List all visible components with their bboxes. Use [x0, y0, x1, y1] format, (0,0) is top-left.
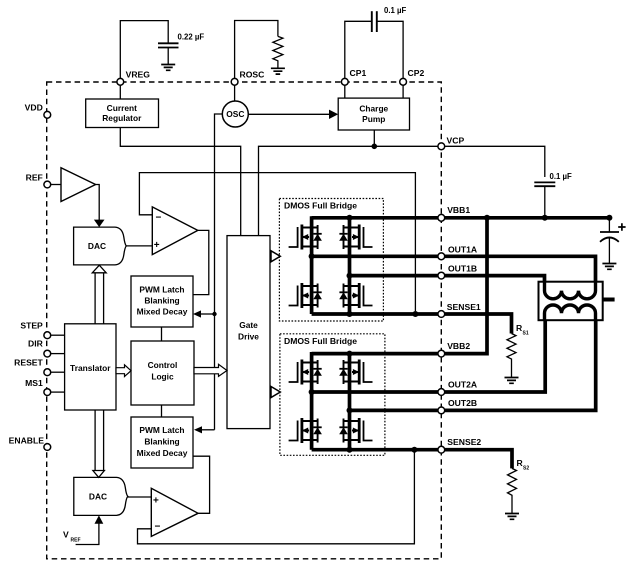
svg-text:OUT1A: OUT1A [448, 244, 477, 254]
svg-text:Blanking: Blanking [144, 437, 179, 447]
svg-text:OSC: OSC [226, 109, 244, 119]
svg-text:Blanking: Blanking [144, 296, 179, 306]
wire MS1 to translator [51, 391, 65, 393]
wire PWM2 to control logic [161, 405, 163, 417]
control logic block [131, 341, 194, 405]
comparator 1 [152, 207, 198, 255]
motor winding 2 [545, 305, 596, 320]
DMOS full bridge 2 dotted box [280, 334, 385, 456]
wire comparator 1 minus feedback from SENSE1 [139, 173, 415, 311]
DAC 1 [74, 227, 127, 265]
junction OSC branch [212, 312, 216, 316]
bus arrow translator to DAC1 [95, 273, 104, 324]
junction VCP cap on VBB1 [542, 215, 548, 221]
svg-text:VREG: VREG [126, 70, 151, 80]
svg-text:0.1 µF: 0.1 µF [384, 6, 406, 15]
transistor bridge1 bottom-right [339, 283, 372, 308]
open arrow translator to control logic [116, 365, 131, 377]
pin CP2 [400, 78, 407, 85]
junction node OUT2A / left spine [309, 389, 315, 395]
svg-text:SENSE1: SENSE1 [447, 302, 481, 312]
junction bridge2 sense rail / right spine [347, 447, 353, 453]
wire CP1 to charge pump [344, 86, 346, 99]
pin REF [44, 181, 51, 188]
svg-text:ROSC: ROSC [240, 70, 265, 80]
current regulator block [86, 99, 159, 128]
svg-text:OUT2A: OUT2A [448, 380, 477, 390]
IC boundary dashed box [47, 82, 442, 559]
svg-text:STEP: STEP [20, 320, 43, 330]
pin RESET [44, 369, 51, 376]
svg-text:Logic: Logic [151, 372, 174, 382]
open arrow control logic to gate drive [194, 364, 227, 376]
junction SENSE1 feedback tap [412, 311, 418, 317]
pin VDD [44, 111, 51, 118]
OUT2A row [312, 390, 438, 394]
pin VBB2 [438, 350, 445, 357]
ground of electrolytic cap [602, 264, 616, 270]
junction node OUT1B / right spine [347, 273, 353, 279]
svg-text:0.22 µF: 0.22 µF [178, 33, 205, 42]
bridge 2 bottom rail SENSE2 [312, 448, 438, 452]
ground of RS1 [505, 378, 519, 384]
VBB1 external line [445, 216, 610, 220]
svg-text:RESET: RESET [14, 358, 43, 368]
pin SENSE1 [438, 311, 445, 318]
svg-text:PWM Latch: PWM Latch [139, 285, 184, 295]
wire DIR to translator [51, 353, 65, 355]
bridge 1 bottom rail SENSE1 [312, 312, 438, 316]
svg-text:+: + [154, 240, 160, 251]
junction SENSE2 feedback tap [411, 447, 417, 453]
wire DAC1 to comparator 1 plus input [126, 245, 153, 247]
ground of 0.22uF cap [161, 65, 175, 71]
junction electrolytic cap [606, 215, 612, 221]
wire STEP to translator [51, 334, 65, 336]
arrow into PWM latch 2 [200, 429, 215, 431]
pin OUT1B [438, 272, 445, 279]
motor winding 1 [545, 282, 596, 299]
bridge 2 right spine [348, 354, 352, 450]
open chevron gate drive to bridge 1 [271, 251, 280, 262]
SENSE1 external line [445, 314, 512, 334]
OUT2B row [350, 409, 439, 413]
svg-text:MS1: MS1 [25, 378, 43, 388]
svg-text:CP2: CP2 [408, 68, 425, 78]
wire charge pump output to VCP and gate drive [259, 130, 439, 236]
pin OUT1A [438, 253, 445, 260]
svg-text:0.1 µF: 0.1 µF [550, 172, 572, 181]
wire comparator 2 minus feedback from SENSE2 [138, 452, 415, 544]
svg-text:CP1: CP1 [350, 68, 367, 78]
svg-text:VBB2: VBB2 [447, 341, 470, 351]
svg-text:VBB1: VBB1 [447, 205, 470, 215]
svg-text:DMOS Full Bridge: DMOS Full Bridge [284, 201, 357, 211]
pin DIR [44, 350, 51, 357]
svg-text:Pump: Pump [362, 114, 385, 124]
pin VCP [438, 143, 445, 150]
SENSE2 external line [445, 450, 512, 469]
wire DAC2 to comparator 2 plus input [127, 496, 151, 498]
pin MS1 [44, 389, 51, 396]
svg-text:DMOS Full Bridge: DMOS Full Bridge [284, 336, 357, 346]
svg-text:S1: S1 [523, 331, 529, 337]
junction node OUT1A / left spine [309, 253, 315, 259]
svg-text:Mixed Decay: Mixed Decay [137, 448, 188, 458]
wire OSC to charge pump with arrow [248, 113, 330, 115]
pin SENSE2 [438, 446, 445, 453]
wire VREF to DAC2 with arrow [76, 522, 99, 545]
wire OSC down to PWM latches [215, 114, 223, 430]
pin VREG [117, 78, 124, 85]
VBB2 external line and tie to VBB1 [445, 218, 487, 354]
OUT1A row [312, 254, 438, 258]
ground of ROSC resistor [271, 68, 285, 74]
translator block [65, 324, 116, 410]
wire RESET to translator [51, 371, 65, 373]
svg-text:Regulator: Regulator [102, 113, 142, 123]
OUT1B row [350, 274, 439, 278]
gate drive block [227, 236, 270, 429]
OUT1B external line to motor [445, 276, 545, 282]
OUT1A external line to motor [445, 256, 596, 281]
svg-text:SENSE2: SENSE2 [447, 437, 481, 447]
svg-text:DIR: DIR [28, 338, 44, 348]
svg-text:Gate: Gate [239, 320, 258, 330]
junction VBB tie [484, 215, 490, 221]
DMOS full bridge 1 dotted box [279, 199, 383, 322]
svg-text:PWM Latch: PWM Latch [139, 425, 184, 435]
bridge 2 top rail VBB2 [312, 352, 438, 356]
svg-text:ENABLE: ENABLE [9, 435, 45, 445]
capacitor 0.22uF [158, 33, 204, 65]
PWM latch blanking mixed decay block 2 [131, 417, 193, 468]
transistor bridge1 bottom-left [289, 283, 322, 308]
svg-text:Drive: Drive [238, 332, 259, 342]
junction node OUT2B / right spine [347, 407, 353, 413]
PWM latch blanking mixed decay block 1 [131, 276, 193, 327]
svg-text:REF: REF [71, 538, 81, 544]
svg-text:Mixed Decay: Mixed Decay [137, 307, 188, 317]
svg-text:Current: Current [107, 103, 137, 113]
junction bridge1 VBB1 rail / right spine [347, 215, 353, 221]
svg-text:Charge: Charge [359, 104, 388, 114]
transistor bridge2 top-right [339, 360, 372, 385]
wire comparator 1 output to PWM latch 1 [193, 230, 209, 294]
wire comparator 2 output to PWM latch 2 [193, 456, 210, 513]
bridge 2 left spine [310, 352, 314, 450]
svg-text:−: − [155, 521, 161, 532]
svg-text:S2: S2 [523, 466, 529, 472]
wire CP2 to charge pump [402, 86, 404, 99]
svg-text:DAC: DAC [89, 492, 107, 502]
pin OUT2A [438, 389, 445, 396]
capacitor 0.1uF (charge pump) [372, 6, 407, 32]
wire CP1 to 0.1uF cap [345, 21, 372, 78]
bridge 1 right spine [348, 218, 352, 314]
transistor bridge2 bottom-right [339, 418, 372, 443]
junction bridge1 sense rail / right spine [347, 311, 353, 317]
resistor RS1 [507, 334, 516, 378]
svg-text:OUT1B: OUT1B [448, 263, 477, 273]
svg-text:Control: Control [148, 360, 178, 370]
svg-text:OUT2B: OUT2B [448, 398, 477, 408]
pin ROSC [231, 78, 238, 85]
wire cap to CP2 [377, 21, 403, 78]
bridge 1 left spine [310, 216, 314, 314]
junction charge pump output [372, 144, 378, 150]
transistor bridge1 top-left [289, 225, 322, 250]
svg-text:REF: REF [26, 173, 43, 183]
wire VREG to current regulator [119, 86, 121, 100]
wire VREG to 0.22uF cap [120, 21, 168, 79]
capacitor 0.1uF (VCP) [534, 172, 572, 218]
bridge 1 top rail VBB1 [312, 216, 438, 220]
wire current regulator to gate drive [120, 128, 240, 236]
wire ROSC to resistor [235, 21, 278, 79]
svg-text:V: V [63, 530, 69, 540]
wire REF pin to buffer [51, 184, 61, 186]
pin STEP [44, 332, 51, 339]
arrow into PWM latch 1 [199, 313, 215, 315]
svg-text:VDD: VDD [25, 103, 43, 113]
transistor bridge2 top-left [289, 360, 322, 385]
REF buffer amp [61, 168, 96, 202]
charge pump block [338, 98, 409, 130]
OUT2B external line to motor [445, 320, 596, 410]
wire buffer to DAC1 with arrow [96, 185, 100, 221]
pin VBB1 [438, 214, 445, 221]
pin CP1 [341, 78, 348, 85]
bus arrow translator to DAC2 [95, 410, 104, 471]
ground of RS2 [505, 514, 519, 520]
svg-text:VCP: VCP [447, 136, 465, 146]
svg-text:−: − [156, 212, 162, 223]
electrolytic capacitor [600, 218, 626, 264]
wire ROSC to OSC [234, 86, 236, 102]
wire VCP to 0.1uF cap [445, 146, 545, 177]
oscillator OSC [222, 101, 248, 127]
pin ENABLE [44, 444, 51, 451]
comparator 2 [151, 488, 198, 536]
motor body [539, 282, 615, 321]
resistor ROSC [273, 36, 283, 68]
open chevron gate drive to bridge 2 [271, 387, 280, 398]
svg-text:DAC: DAC [88, 241, 106, 251]
pin OUT2B [438, 407, 445, 414]
resistor RS2 [508, 468, 517, 513]
DAC 2 [74, 477, 128, 515]
transistor bridge1 top-right [339, 225, 372, 250]
OUT2A external line to motor [445, 320, 546, 392]
transistor bridge2 bottom-left [289, 418, 322, 443]
svg-text:Translator: Translator [70, 363, 111, 373]
svg-text:+: + [153, 496, 159, 507]
wire PWM1 to control logic [161, 327, 163, 341]
junction bridge2 VBB2 rail / right spine [347, 351, 353, 357]
